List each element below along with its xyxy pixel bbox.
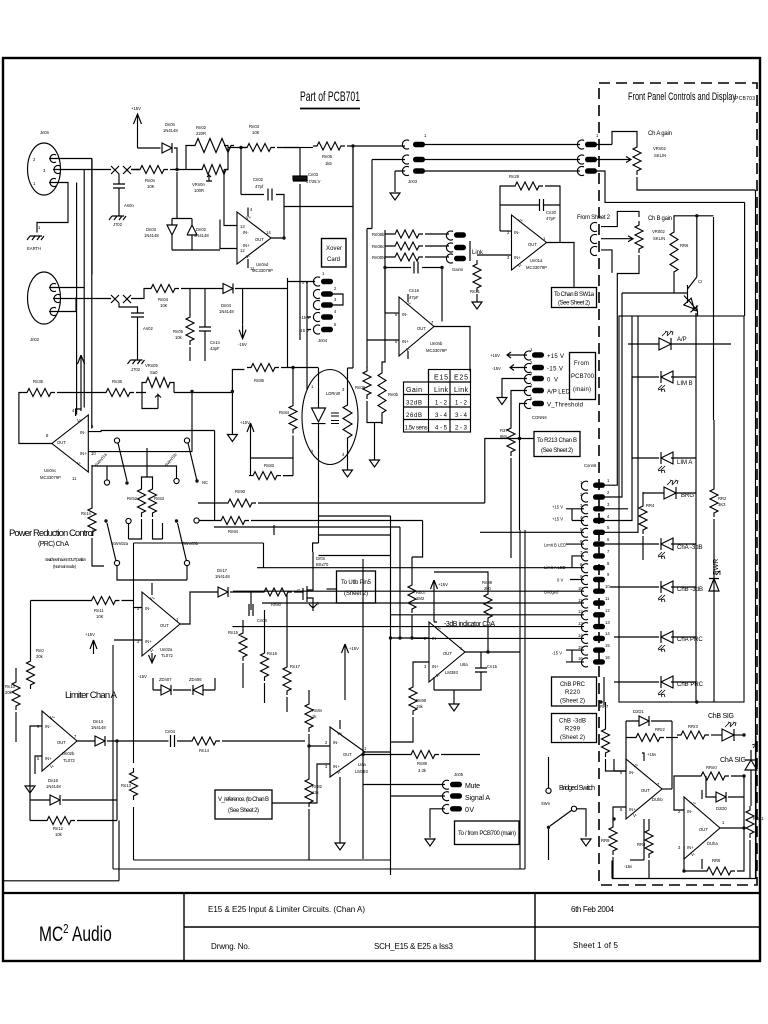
LED ChA SIG up [745, 744, 757, 780]
conn6 hooks and pads [581, 481, 588, 667]
svg-text:9: 9 [607, 572, 610, 577]
wire dn04 junction [235, 289, 288, 325]
svg-text:Rn14: Rn14 [199, 748, 210, 753]
svg-text:V+: V+ [337, 731, 343, 736]
wire out un02a [180, 592, 218, 624]
svg-text:Un0nb: Un0nb [430, 341, 443, 346]
junction dot node Dn0n [175, 168, 178, 171]
junction dot chb sig [742, 733, 745, 736]
svg-text:Rn84: Rn84 [279, 410, 290, 415]
vertical PWR rail [713, 420, 715, 702]
big rect B [113, 530, 525, 869]
wire in+ Un01a [477, 254, 512, 256]
diode D2D1 [639, 716, 649, 726]
svg-text:10K: 10K [96, 614, 104, 619]
power +15V arrow mid-low [342, 644, 349, 658]
switch bank top wire [101, 431, 215, 521]
ground opto [343, 470, 353, 477]
svg-text:OUT: OUT [528, 242, 537, 247]
svg-text:IN-: IN- [243, 230, 249, 235]
ground rn09 [370, 460, 380, 467]
pin 1 hook [49, 179, 56, 187]
resistor RR8 vertical [645, 826, 653, 858]
switch SWn02a dot [104, 519, 107, 522]
svg-text:(Sheet 2): (Sheet 2) [560, 735, 585, 741]
resistor Rn80 [260, 588, 292, 596]
svg-text:Un0nd: Un0nd [256, 262, 269, 267]
svg-text:ChB PRC: ChB PRC [677, 682, 704, 688]
wire out un02b [77, 741, 134, 821]
junction dot v_thresh [518, 437, 521, 440]
svg-text:V-: V- [518, 263, 523, 268]
svg-text:3: 3 [507, 255, 510, 260]
svg-text:13: 13 [578, 621, 583, 626]
svg-text:11: 11 [578, 598, 583, 603]
svg-text:Rn17: Rn17 [290, 664, 301, 669]
conn6 pad 14 [593, 636, 605, 641]
long verticals from XLR pins [77, 159, 92, 429]
svg-text:V+: V+ [406, 301, 412, 306]
pad row3 right [585, 168, 597, 173]
hooks From Sheet2 [590, 223, 597, 256]
resistor Rn10 20k vertical [12, 678, 20, 710]
dashed box PCB703 [599, 83, 757, 885]
long vertical mid rails [306, 282, 308, 390]
junction dot bus A [351, 144, 354, 147]
conn6 pad 4 [593, 518, 605, 523]
switch blade bridged [550, 810, 572, 826]
common-mode choke row2 [107, 295, 139, 313]
svg-text:3: 3 [325, 764, 328, 769]
resistor Rn09 vertical [363, 367, 371, 399]
svg-text:Cn03: Cn03 [308, 172, 319, 177]
svg-text:Dn0n: Dn0n [165, 122, 176, 127]
svg-text:PCB703: PCB703 [735, 96, 755, 102]
pad 0V [450, 806, 462, 811]
svg-text:VRn02: VRn02 [653, 146, 666, 151]
switch circle right [571, 806, 576, 811]
svg-text:4: 4 [342, 452, 345, 457]
svg-text:2: 2 [607, 490, 610, 495]
pin 1 hook row2 [49, 308, 56, 316]
svg-text:10K: 10K [160, 303, 168, 308]
svg-text:1-2: 1-2 [435, 401, 448, 407]
pot VRn02 vertical resistor [633, 143, 641, 175]
svg-text:Limiter Chan A: Limiter Chan A [65, 690, 118, 701]
svg-text:1: 1 [364, 746, 367, 751]
svg-text:2: 2 [325, 740, 328, 745]
svg-text:7: 7 [74, 734, 77, 739]
svg-text:13: 13 [240, 224, 245, 229]
svg-text:V+: V+ [436, 626, 442, 631]
svg-text:RRr3: RRr3 [688, 724, 698, 729]
svg-text:RR4: RR4 [646, 503, 655, 508]
svg-text:IN+: IN+ [402, 339, 409, 344]
wire down to Rn83 [250, 437, 252, 476]
svg-text:220R: 220R [196, 131, 206, 136]
svg-text:OUT: OUT [417, 326, 426, 331]
svg-text:IN+: IN+ [432, 664, 439, 669]
LED LIM A [658, 452, 673, 473]
opamp supply pins [247, 208, 249, 269]
svg-text:Switches shown in 'OUT' positi: Switches shown in 'OUT' position [45, 557, 87, 562]
resistor Rn1n vertical [88, 504, 96, 536]
svg-text:DUha: DUha [707, 841, 718, 846]
svg-text:IN+: IN+ [145, 639, 152, 644]
junction dot gnd rail [231, 390, 234, 393]
wire +15 mid-low [344, 658, 346, 700]
XLR connector Jn0n [28, 143, 61, 195]
svg-text:16: 16 [605, 655, 610, 660]
switch SWn03b blade [178, 523, 187, 561]
svg-text:Mute: Mute [465, 783, 480, 790]
svg-text:V-: V- [337, 770, 342, 775]
svg-text:100R: 100R [194, 188, 204, 193]
wires rr9 [612, 819, 614, 879]
svg-text:+15v: +15v [647, 752, 657, 757]
resistor Rn15 vertical [239, 629, 247, 661]
resistor Rn06 1k5 [313, 142, 345, 150]
svg-text:1.5v sens: 1.5v sens [405, 426, 428, 432]
wires chB pot [601, 211, 639, 302]
svg-text:5: 5 [334, 322, 337, 327]
junction dot trimmer [190, 390, 193, 393]
svg-text:V+: V+ [77, 418, 83, 423]
svg-text:Sheet 1 of 5: Sheet 1 of 5 [573, 941, 619, 950]
ground rn31 [472, 302, 482, 309]
zener ZDn06 [193, 685, 203, 695]
capacitor Cn15 [475, 668, 487, 672]
big rect A [134, 530, 521, 869]
svg-text:Cn04: Cn04 [165, 729, 176, 734]
wire Rn03 to Cn03 node [277, 147, 300, 149]
svg-text:IN+: IN+ [80, 451, 87, 456]
switch SWn02a circle bottom [114, 560, 119, 565]
capacitor An0n [113, 184, 125, 216]
wire out Un0nb [434, 327, 470, 372]
pad Signal A [450, 793, 462, 798]
wire v+ 3db [434, 594, 437, 622]
svg-text:Bridged Switch: Bridged Switch [559, 785, 595, 792]
resistor RR4 vertical [639, 502, 647, 534]
svg-text:Gain: Gain [406, 387, 422, 394]
title block middle horizontal line [184, 926, 760, 928]
svg-text:-15 V: -15 V [547, 367, 563, 373]
wires rn99 [434, 572, 488, 652]
svg-text:3-4: 3-4 [435, 413, 448, 419]
wires ChB-3dB [610, 586, 696, 588]
svg-text:11: 11 [72, 476, 77, 481]
opamp Un02a [142, 592, 180, 656]
wire Rn06 to pads / vertical droppers [347, 146, 405, 240]
svg-text:LM393: LM393 [355, 769, 368, 774]
svg-text:Rn06: Rn06 [322, 154, 333, 159]
wires rr8 [648, 819, 650, 879]
svg-text:Rn28: Rn28 [509, 174, 520, 179]
svg-text:47pf: 47pf [255, 184, 264, 189]
wire zener row [153, 678, 215, 690]
svg-text:DUhb: DUhb [652, 797, 663, 802]
capacitor Cn06 [249, 604, 253, 616]
box To/from PCB700 [455, 821, 520, 845]
svg-text:1: 1 [38, 225, 41, 230]
wires RR6 [674, 216, 714, 420]
svg-text:Rn80: Rn80 [271, 602, 282, 607]
clamp wires row1 [172, 172, 220, 250]
wire rr6b left [684, 846, 703, 871]
junction dot out [486, 650, 489, 653]
opto ellipse [302, 370, 358, 465]
svg-text:Rn0: Rn0 [36, 648, 44, 653]
svg-text:3-4: 3-4 [455, 413, 468, 419]
svg-text:Rn09: Rn09 [355, 385, 366, 390]
svg-text:SWn01b: SWn01b [164, 451, 179, 467]
svg-text:Rn05: Rn05 [173, 329, 184, 334]
switch SWn01a dot [125, 481, 128, 484]
svg-text:+15V: +15V [131, 106, 141, 111]
svg-text:To Utlb Pin5: To Utlb Pin5 [341, 580, 372, 586]
conn6 pad 15 [593, 647, 605, 652]
power +15V arrow [134, 114, 142, 148]
table frame [404, 370, 471, 433]
svg-text:(PRC) Ch A: (PRC) Ch A [38, 541, 69, 548]
conn6 pad 8 [593, 565, 605, 570]
svg-text:13: 13 [605, 620, 610, 625]
svg-text:SWn: SWn [541, 801, 551, 806]
junction dots [383, 266, 386, 269]
link hooks [446, 231, 453, 263]
svg-text:20k: 20k [5, 690, 13, 695]
svg-text:Rn90: Rn90 [235, 489, 246, 494]
switch SWn03b dot [175, 519, 178, 522]
wire rn0n to node [131, 169, 186, 171]
wire Rn03 row to cap node [284, 147, 300, 149]
svg-text:Jn0n: Jn0n [40, 130, 50, 135]
svg-text:(See Sheet 2): (See Sheet 2) [541, 448, 573, 454]
svg-text:CONN6: CONN6 [532, 415, 547, 420]
svg-text:BRG: BRG [681, 493, 694, 499]
switch circle rn94 [194, 518, 199, 523]
svg-text:2-3: 2-3 [455, 426, 468, 432]
conn5 hooks [524, 351, 531, 409]
wire join rn02 vrn right [224, 146, 241, 170]
svg-text:4: 4 [334, 309, 337, 314]
diode Dn04 [223, 284, 233, 294]
junction dot rn89 [361, 753, 364, 756]
svg-text:47/25:V: 47/25:V [306, 179, 321, 184]
wires rn15 [242, 620, 244, 688]
long vertical 0V rail [287, 278, 289, 368]
svg-text:Rn08b: Rn08b [372, 232, 385, 237]
svg-text:Gainn: Gainn [452, 267, 464, 272]
svg-text:OUT: OUT [343, 752, 352, 757]
LED LIM B [658, 371, 673, 392]
svg-text:Dr0n: Dr0n [316, 556, 326, 561]
wire in+ u4a [272, 764, 330, 803]
svg-text:IN-: IN- [45, 724, 51, 729]
conn6 pad 16 [593, 659, 605, 664]
svg-text:5: 5 [607, 525, 610, 530]
wire diode to node [174, 148, 177, 170]
resistor Rn08b [391, 230, 423, 238]
svg-text:+15 V: +15 V [552, 505, 563, 510]
svg-text:6th Feb 2004: 6th Feb 2004 [571, 905, 615, 914]
pin 3 hook [53, 166, 60, 174]
svg-text:0 V: 0 V [557, 578, 563, 583]
svg-text:MC33079P: MC33079P [426, 348, 447, 353]
svg-text:V-: V- [633, 813, 638, 818]
svg-text:Rn02: Rn02 [196, 125, 207, 130]
svg-text:Jn02: Jn02 [30, 337, 40, 342]
wires rrn0 [674, 776, 744, 810]
wires rn1n [92, 465, 104, 566]
svg-text:1: 1 [33, 181, 36, 186]
ground arrow under Jn03 [390, 193, 400, 200]
opamp U4a [330, 727, 365, 777]
opamp DUhb [626, 759, 662, 819]
switch SWn03b circle bottom [184, 560, 189, 565]
feedback wire Un0nb [385, 268, 442, 322]
svg-text:IN-: IN- [402, 312, 408, 317]
svg-text:1N4148: 1N4148 [215, 574, 230, 579]
wire -15 rail [630, 859, 644, 861]
bracket pads 2-3 [333, 294, 343, 305]
resistor Rn99 vertical [484, 590, 492, 622]
ground bridged [581, 839, 591, 846]
svg-text:NC: NC [202, 480, 208, 485]
svg-text:16: 16 [578, 656, 583, 661]
wire opamp in- [224, 170, 237, 226]
wire out Un01a [547, 243, 575, 288]
resistor RRr2 [632, 734, 664, 742]
svg-text:+15V: +15V [490, 353, 500, 358]
svg-text:U8a: U8a [460, 662, 468, 667]
switch SWn01a circle [114, 438, 119, 443]
junction dot rr9 [612, 817, 615, 820]
svg-text:Front Panel Controls and Displ: Front Panel Controls and Display [628, 91, 736, 103]
svg-text:Rn07: Rn07 [416, 590, 427, 595]
wires rn09 rn0b join [367, 313, 385, 460]
box ChB -3dB R299 [552, 714, 597, 743]
svg-text:Rn52: Rn52 [127, 496, 138, 501]
capacitor Cn16 [414, 262, 418, 274]
conn6 pad 2 [593, 494, 605, 499]
diode Dn03 vertical [167, 219, 177, 251]
svg-text:Un02a: Un02a [160, 647, 173, 652]
svg-text:RR8: RR8 [637, 842, 646, 847]
svg-text:R37: R37 [500, 428, 508, 433]
svg-text:LM393: LM393 [445, 670, 458, 675]
resistor Rn98 vertical [409, 683, 417, 715]
wire rn90 [198, 439, 485, 504]
svg-text:12: 12 [605, 608, 610, 613]
svg-text:1N4148: 1N4148 [46, 784, 61, 789]
supply stubs duha [701, 790, 703, 869]
svg-text:1N4148: 1N4148 [163, 128, 178, 133]
wires rn52 rn53 [129, 448, 163, 539]
LED ChB -3dB [658, 581, 673, 602]
svg-text:Cn02: Cn02 [253, 177, 264, 182]
conn5 pads [532, 352, 544, 357]
earth ground symbol [27, 236, 44, 240]
wires d2d0 [706, 776, 744, 828]
node junction dot [239, 146, 242, 149]
svg-text:+15V: +15V [240, 420, 250, 425]
wire rn83 right [283, 475, 293, 477]
conn6 pad 6 [593, 541, 605, 546]
svg-text:1: 1 [424, 133, 427, 138]
wire V_Threshold down [520, 404, 528, 531]
wire in- Un01a [500, 230, 512, 232]
wire rn35 to node [57, 392, 102, 394]
trimmer VRn0n 100R [200, 165, 228, 182]
svg-text:(Sheet 2): (Sheet 2) [560, 699, 585, 705]
svg-text:10K: 10K [147, 184, 155, 189]
svg-text:Rn0b: Rn0b [388, 392, 399, 397]
conn6 pad 5 [593, 530, 605, 535]
junction dot out duha [742, 826, 745, 829]
wires rn07 [411, 557, 413, 638]
svg-text:(main): (main) [573, 387, 591, 393]
resistor Rn03 10K [243, 144, 275, 152]
wires cn1n [204, 289, 206, 362]
svg-text:5: 5 [620, 807, 623, 812]
wire rrr3 to led [711, 734, 722, 736]
svg-text:Dn17: Dn17 [217, 568, 228, 573]
wire out u4a [365, 751, 390, 753]
feedback wires Un01a [500, 186, 560, 243]
wire in- Un0nc [88, 431, 101, 432]
svg-text:J702: J702 [113, 222, 123, 227]
resistor RR9 vertical [609, 823, 617, 855]
svg-text:3: 3 [424, 664, 427, 669]
resistor Rn04 [147, 285, 179, 293]
supply stub duhb [642, 753, 644, 860]
wires transistor [622, 216, 698, 316]
wiper arrow chA [597, 157, 631, 163]
wire trimmer out [174, 370, 244, 452]
resistor Rn83 [249, 472, 281, 480]
svg-text:1: 1 [607, 478, 610, 483]
LED PWR on rail [709, 571, 720, 591]
resistor Rn89 [407, 751, 439, 759]
svg-text:Rn99: Rn99 [482, 580, 493, 585]
svg-text:-15V: -15V [238, 342, 247, 347]
svg-text:OUT: OUT [699, 827, 708, 832]
svg-text:V_Threshold: V_Threshold [547, 403, 583, 409]
svg-text:3: 3 [43, 168, 46, 173]
svg-text:An02: An02 [143, 326, 153, 331]
ground mute [425, 839, 435, 846]
resistor Rn53 vertical [149, 485, 157, 517]
switch circle rn52 top [126, 518, 131, 523]
resistor Rn52 vertical [138, 485, 146, 517]
svg-text:+15V: +15V [438, 582, 448, 587]
svg-text:J702: J702 [131, 367, 141, 372]
wire down to rr6 [737, 828, 744, 871]
svg-text:3: 3 [530, 371, 533, 376]
svg-text:14: 14 [605, 631, 610, 636]
svg-text:10k: 10k [175, 335, 183, 340]
svg-text:G: G [297, 588, 300, 593]
svg-text:R220: R220 [565, 690, 581, 696]
capacitor Cn04 [171, 735, 175, 747]
svg-text:Part of PCB701: Part of PCB701 [300, 88, 360, 104]
svg-text:Rn0n: Rn0n [145, 178, 156, 183]
svg-text:47pF: 47pF [409, 295, 419, 300]
resistor Rn0n [136, 166, 168, 174]
capacitor Cn1n [199, 327, 211, 331]
